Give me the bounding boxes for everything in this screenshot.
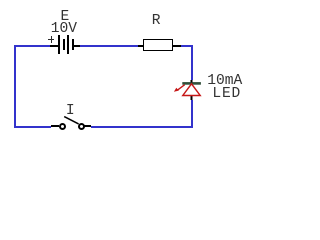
battery E: left lead (black)	[50, 45, 59, 47]
wire: right vertical upper (corner down to LED)	[191, 45, 193, 80]
battery E: short plate 2 (negative)	[72, 39, 74, 50]
battery E: short plate 1	[63, 39, 65, 50]
wire: bottom horizontal right segment (switch to LED branch)	[91, 126, 193, 128]
switch I: right lead	[84, 125, 91, 127]
resistor R: left lead	[138, 45, 144, 47]
LED cathode bar (dark green)	[182, 82, 201, 85]
LED triangle (red outline)	[183, 84, 200, 96]
switch I: left contact circle	[59, 123, 66, 130]
battery E: right lead (black)	[74, 45, 80, 47]
label 10V	[51, 22, 77, 37]
label E	[61, 10, 70, 25]
label I	[66, 104, 75, 119]
wire: left vertical	[14, 45, 16, 128]
wire: bottom horizontal left segment	[14, 126, 51, 128]
wire: right vertical lower (LED down to bottom corner)	[191, 100, 193, 128]
switch I: right contact circle	[78, 123, 85, 130]
battery E: tall plate 2	[67, 35, 69, 54]
label 10mA	[207, 74, 242, 89]
wire: top horizontal left segment (battery + to left corner)	[14, 45, 50, 47]
wire: top horizontal right segment (resistor to top-right corner)	[181, 45, 193, 47]
LED D1: symbol	[170, 78, 206, 104]
LED pin black below triangle	[191, 96, 193, 100]
battery E: plus sign	[48, 39, 54, 40]
LED emission arrow	[178, 85, 185, 90]
label R	[152, 14, 161, 29]
LED pin black above bar	[191, 80, 193, 82]
battery E: tall plate 1 (positive)	[58, 35, 60, 54]
resistor R: body	[143, 39, 172, 51]
label LED	[212, 87, 241, 102]
switch I: left lead	[51, 125, 59, 127]
resistor R: right lead	[173, 45, 181, 47]
wire: top horizontal mid segment (battery - to resistor)	[80, 45, 138, 47]
switch I: lever	[60, 112, 84, 128]
